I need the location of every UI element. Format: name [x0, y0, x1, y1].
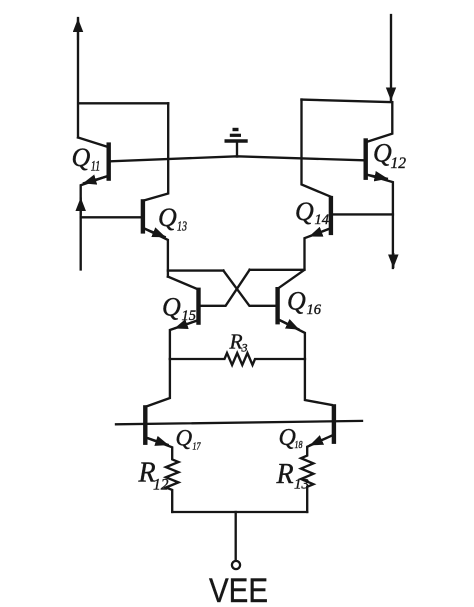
svg-text:12: 12 — [153, 477, 169, 494]
svg-text:18: 18 — [295, 439, 303, 451]
svg-text:3: 3 — [241, 341, 248, 355]
svg-text:Q: Q — [287, 287, 306, 316]
svg-text:12: 12 — [391, 155, 407, 172]
svg-text:VEE: VEE — [209, 572, 268, 607]
svg-text:17: 17 — [193, 440, 201, 452]
svg-text:11: 11 — [91, 158, 101, 174]
svg-text:13: 13 — [177, 220, 187, 235]
svg-text:15: 15 — [182, 308, 197, 324]
svg-text:Q: Q — [72, 143, 91, 172]
svg-text:Q: Q — [162, 293, 181, 322]
svg-text:14: 14 — [315, 212, 330, 228]
svg-text:Q: Q — [295, 197, 314, 226]
svg-text:Q: Q — [176, 426, 193, 451]
svg-text:Q: Q — [158, 203, 177, 232]
svg-text:R: R — [276, 459, 294, 490]
svg-text:13: 13 — [294, 477, 309, 493]
svg-text:Q: Q — [279, 425, 296, 451]
svg-text:16: 16 — [307, 302, 322, 318]
svg-text:Q: Q — [373, 139, 392, 168]
